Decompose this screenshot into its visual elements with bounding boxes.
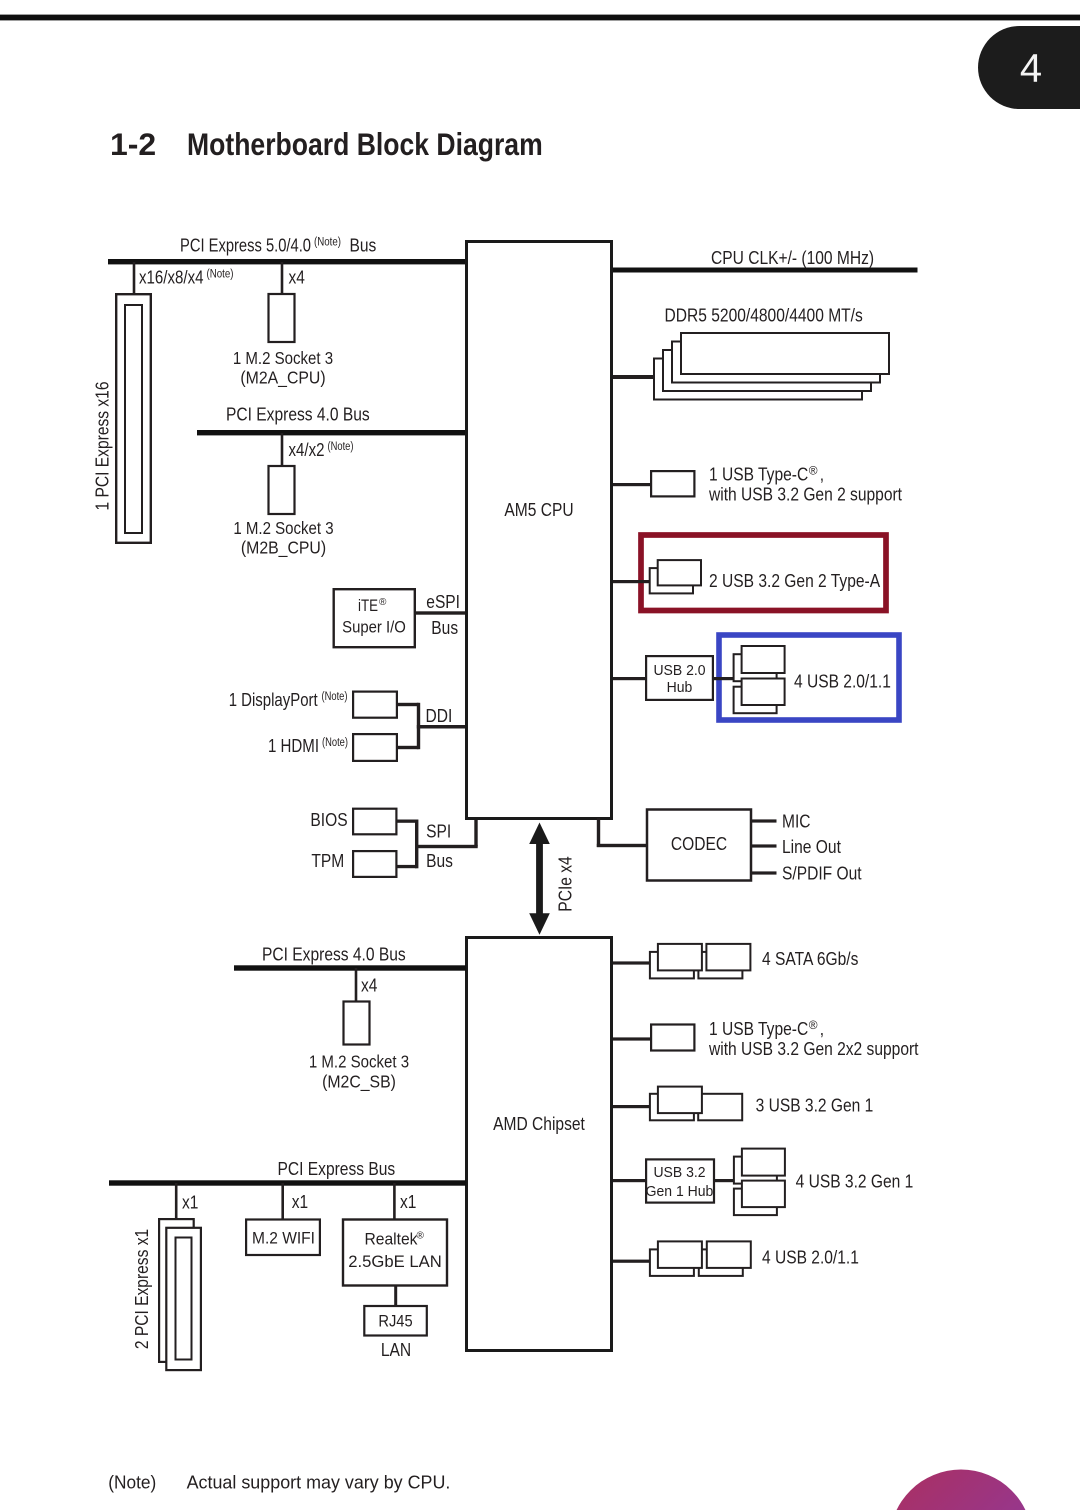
svg-text:SPI: SPI xyxy=(426,820,451,841)
M.2 socket 3 M2A_CPU box xyxy=(269,294,295,342)
wire to codec horizontal xyxy=(597,844,647,847)
svg-text:LAN: LAN xyxy=(381,1339,411,1360)
wire chipset to 3 USB xyxy=(613,1105,650,1108)
wire CPU to DDR5 xyxy=(613,375,655,379)
wire bus4 to Realtek xyxy=(393,1183,396,1219)
wire S/PDIF Out xyxy=(752,871,777,874)
DDR5 module stack xyxy=(654,359,862,400)
decorative purple circle xyxy=(890,1470,1033,1510)
USB 3.2 Gen 1 Hub box xyxy=(646,1159,714,1202)
svg-text:1 M.2 Socket 3: 1 M.2 Socket 3 xyxy=(233,348,333,368)
svg-text:USB 3.2: USB 3.2 xyxy=(653,1165,705,1181)
wire chipset to USB3 hub xyxy=(613,1179,646,1182)
wire CPU to codec vertical xyxy=(597,818,600,847)
blue highlight box xyxy=(719,635,899,720)
svg-text:2 USB 3.2 Gen 2 Type-A: 2 USB 3.2 Gen 2 Type-A xyxy=(709,570,881,591)
svg-text:Hub: Hub xyxy=(667,680,693,696)
svg-text:4: 4 xyxy=(1020,47,1042,91)
wire hub to USB2 ports xyxy=(714,677,734,680)
svg-text:Actual support may vary by CPU: Actual support may vary by CPU. xyxy=(187,1472,451,1493)
USB Type-C 2x2 box xyxy=(651,1025,694,1051)
svg-text:1 DisplayPort: 1 DisplayPort xyxy=(229,689,318,710)
svg-text:PCI Express Bus: PCI Express Bus xyxy=(278,1158,396,1179)
svg-text:MIC: MIC xyxy=(782,811,811,832)
svg-text:BIOS: BIOS xyxy=(310,809,347,830)
USB 2.0 port stack xyxy=(734,654,777,681)
wire hub to USB3 ports xyxy=(714,1179,734,1182)
svg-text:1 USB Type-C: 1 USB Type-C xyxy=(709,1018,808,1039)
wire bus3 to M2C xyxy=(355,968,358,1001)
TPM box xyxy=(353,851,396,877)
svg-text:PCI Express 4.0 Bus: PCI Express 4.0 Bus xyxy=(262,944,406,965)
svg-text:,: , xyxy=(820,1018,824,1039)
wire DP to DDI xyxy=(398,703,419,706)
svg-text:eSPI: eSPI xyxy=(426,591,460,612)
svg-text:,: , xyxy=(820,464,824,485)
wire chipset to SATA xyxy=(613,961,650,964)
Realtek 2.5GbE LAN box xyxy=(343,1220,447,1286)
svg-text:4 USB 2.0/1.1: 4 USB 2.0/1.1 xyxy=(762,1247,859,1268)
bus PCI Express 4.0 chipset xyxy=(234,965,466,970)
svg-text:Gen 1 Hub: Gen 1 Hub xyxy=(646,1184,714,1200)
wire DDI vertical xyxy=(417,703,420,749)
svg-text:1-2: 1-2 xyxy=(110,126,156,162)
red highlight box xyxy=(641,535,886,611)
HDMI box xyxy=(353,734,397,761)
wire HDMI to DDI xyxy=(398,746,419,749)
svg-text:(Note): (Note) xyxy=(322,737,348,749)
DisplayPort box xyxy=(353,692,397,718)
wire bus1 to PCIe x16 slot xyxy=(133,262,136,293)
svg-text:Bus: Bus xyxy=(350,235,377,256)
M.2 socket 3 M2B_CPU box xyxy=(269,466,295,514)
svg-text:x16/x8/x4: x16/x8/x4 xyxy=(139,267,204,288)
svg-text:®: ® xyxy=(809,1020,818,1032)
wire CPU to USB Type-C xyxy=(613,483,651,486)
wire BIOS to SPI xyxy=(398,820,417,823)
wire bus1 to M2A xyxy=(281,262,284,293)
bus PCI Express chipset bottom xyxy=(109,1180,466,1185)
svg-text:Bus: Bus xyxy=(431,617,458,638)
wire CPU to USB 3.2 Gen 2 xyxy=(613,580,650,583)
svg-text:Super I/O: Super I/O xyxy=(342,619,406,637)
svg-text:PCIe x4: PCIe x4 xyxy=(555,856,576,911)
svg-text:x4: x4 xyxy=(361,975,377,996)
svg-text:2 PCI Express x1: 2 PCI Express x1 xyxy=(131,1229,152,1349)
CODEC box xyxy=(647,810,751,881)
3 USB port stack xyxy=(650,1094,694,1121)
bus PCI Express 5.0/4.0 xyxy=(108,259,466,264)
wire chipset to Type-C 2x2 xyxy=(613,1037,651,1040)
svg-text:Motherboard Block Diagram: Motherboard Block Diagram xyxy=(187,126,543,162)
wire MIC xyxy=(752,819,777,822)
svg-text:(Note): (Note) xyxy=(108,1472,156,1493)
wire SPI stub to CPU xyxy=(474,820,477,847)
svg-text:x1: x1 xyxy=(292,1191,308,1212)
svg-text:1 HDMI: 1 HDMI xyxy=(268,735,319,756)
wire TPM to SPI xyxy=(398,865,417,868)
svg-text:M.2 WIFI: M.2 WIFI xyxy=(252,1230,315,1248)
svg-text:4 SATA 6Gb/s: 4 SATA 6Gb/s xyxy=(762,948,858,969)
wire eSPI xyxy=(415,611,466,614)
svg-text:CPU CLK+/- (100 MHz): CPU CLK+/- (100 MHz) xyxy=(711,247,874,268)
wire CPU to USB2 hub xyxy=(613,677,646,680)
wire bus4 to M.2 WIFI xyxy=(281,1183,284,1219)
USB 3.2 Gen2 Type-A port stack xyxy=(650,568,693,593)
USB Type-C CPU box xyxy=(651,471,694,496)
wire chipset to 4 USB 2.0 xyxy=(613,1260,650,1263)
PCIe x1 slots xyxy=(159,1219,194,1362)
USB 3.2 Gen1 port stack xyxy=(734,1157,777,1184)
svg-text:CODEC: CODEC xyxy=(671,833,727,854)
svg-text:PCI Express 4.0 Bus: PCI Express 4.0 Bus xyxy=(226,404,370,425)
top rule xyxy=(0,15,1080,21)
svg-text:Realtek: Realtek xyxy=(365,1230,418,1249)
svg-text:(Note): (Note) xyxy=(328,441,354,453)
PCIe x16 slot xyxy=(116,294,151,543)
wire SPI vertical xyxy=(415,820,418,869)
page tab 4 xyxy=(978,26,1080,109)
svg-text:Bus: Bus xyxy=(426,850,453,871)
svg-text:TPM: TPM xyxy=(311,850,344,871)
svg-text:DDR5 5200/4800/4400 MT/s: DDR5 5200/4800/4400 MT/s xyxy=(665,305,863,326)
svg-text:4 USB 3.2 Gen 1: 4 USB 3.2 Gen 1 xyxy=(796,1171,914,1192)
svg-text:x4/x2: x4/x2 xyxy=(289,439,325,460)
svg-text:AMD Chipset: AMD Chipset xyxy=(493,1113,585,1134)
svg-text:x4: x4 xyxy=(289,267,305,288)
svg-text:1 M.2 Socket 3: 1 M.2 Socket 3 xyxy=(309,1052,409,1072)
svg-text:2.5GbE LAN: 2.5GbE LAN xyxy=(348,1252,442,1271)
svg-text:x1: x1 xyxy=(182,1192,198,1213)
svg-text:®: ® xyxy=(417,1230,425,1242)
wire Line Out xyxy=(752,844,777,847)
svg-text:RJ45: RJ45 xyxy=(378,1312,412,1331)
BIOS box xyxy=(353,809,396,835)
svg-text:(M2B_CPU): (M2B_CPU) xyxy=(241,538,326,558)
svg-text:®: ® xyxy=(809,466,818,478)
svg-text:3 USB 3.2 Gen 1: 3 USB 3.2 Gen 1 xyxy=(756,1095,874,1116)
svg-text:(M2A_CPU): (M2A_CPU) xyxy=(240,368,325,388)
svg-text:(M2C_SB): (M2C_SB) xyxy=(322,1071,396,1091)
svg-text:4 USB 2.0/1.1: 4 USB 2.0/1.1 xyxy=(794,670,891,691)
svg-text:DDI: DDI xyxy=(426,705,453,726)
wire CPU CLK xyxy=(613,268,918,273)
M.2 WIFI box xyxy=(246,1220,320,1256)
svg-text:(Note): (Note) xyxy=(207,269,234,281)
M.2 socket 3 M2C_SB box xyxy=(344,1002,370,1045)
chipset box AMD xyxy=(467,938,612,1351)
wire DDI to CPU xyxy=(417,725,466,729)
wire SPI bus horizontal xyxy=(415,845,478,848)
svg-text:Line Out: Line Out xyxy=(782,836,841,857)
svg-text:with USB 3.2 Gen 2x2 support: with USB 3.2 Gen 2x2 support xyxy=(708,1038,918,1059)
svg-text:(Note): (Note) xyxy=(322,691,348,703)
RJ45 box xyxy=(364,1306,427,1336)
PCIe x4 arrow xyxy=(529,823,550,935)
svg-text:S/PDIF Out: S/PDIF Out xyxy=(782,863,862,884)
wire Realtek to RJ45 xyxy=(394,1286,397,1306)
wire bus4 to PCIe x1 slots xyxy=(175,1183,178,1218)
iTE Super I/O box xyxy=(334,589,415,647)
wire bus2 to M2B xyxy=(281,433,284,465)
USB 2.0 port stacks chipset xyxy=(650,1249,694,1276)
svg-text:PCI Express 5.0/4.0: PCI Express 5.0/4.0 xyxy=(180,235,311,256)
bus PCI Express 4.0 CPU xyxy=(197,430,466,435)
svg-text:with USB 3.2 Gen 2 support: with USB 3.2 Gen 2 support xyxy=(708,484,902,505)
SATA port stacks xyxy=(650,952,694,979)
svg-text:iTE: iTE xyxy=(358,597,378,615)
svg-text:(Note): (Note) xyxy=(314,237,341,249)
svg-text:x1: x1 xyxy=(400,1191,416,1212)
svg-text:1 USB Type-C: 1 USB Type-C xyxy=(709,464,808,485)
svg-text:AM5 CPU: AM5 CPU xyxy=(504,499,573,520)
svg-text:USB 2.0: USB 2.0 xyxy=(653,663,705,679)
CPU box AM5 xyxy=(467,242,612,819)
svg-text:®: ® xyxy=(379,596,387,608)
svg-text:1 PCI Express x16: 1 PCI Express x16 xyxy=(92,382,113,511)
svg-text:1 M.2 Socket 3: 1 M.2 Socket 3 xyxy=(233,518,333,538)
USB 2.0 Hub box xyxy=(646,656,713,700)
